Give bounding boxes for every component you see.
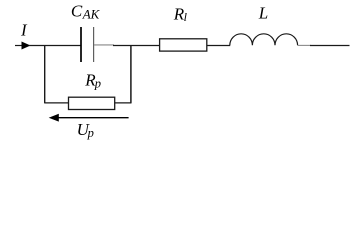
wire capacitor to node B (grey segment): [94, 44, 114, 46]
label R_l: [173, 4, 188, 24]
resistor R_l: [160, 39, 207, 51]
svg-text:p: p: [94, 76, 101, 90]
wire R_p to node B: [115, 102, 132, 104]
wire output: [310, 45, 350, 47]
wire output (grey segment): [298, 44, 311, 46]
svg-text:AK: AK: [82, 7, 101, 22]
voltage arrow U_p: [49, 114, 129, 122]
svg-text:p: p: [87, 126, 94, 140]
inductor L: [230, 34, 298, 46]
wire R_l to inductor: [207, 45, 230, 47]
svg-text:L: L: [258, 4, 268, 23]
label C_AK: [71, 1, 101, 21]
node B: right junction vertical wire: [130, 46, 132, 103]
current arrow I: [15, 42, 31, 50]
label U_p: [77, 120, 94, 140]
wire input to capacitor: [29, 45, 81, 47]
wire node A down to R_p: [44, 102, 68, 104]
wire to node B: [113, 45, 160, 47]
svg-text:C: C: [71, 1, 83, 20]
capacitor C_AK: [81, 27, 94, 62]
node A: left junction vertical wire: [44, 46, 46, 103]
resistor R_p: [69, 97, 115, 109]
label R_p: [84, 71, 101, 91]
